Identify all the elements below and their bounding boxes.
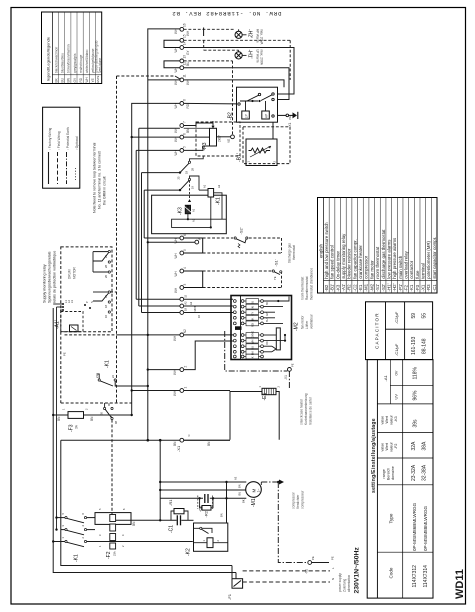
overload relay F2 (95, 508, 131, 559)
contact stage timer upper (177, 156, 204, 180)
svg-text:GY: GY (186, 50, 190, 55)
svg-text:-R2: -R2 (204, 510, 209, 517)
svg-text:MOT: MOT (193, 305, 197, 311)
svg-text:YE: YE (91, 78, 95, 82)
svg-text:-S1': -S1' (375, 284, 380, 292)
dashed wire A1 bottom loop to bus (61, 332, 132, 403)
trunk wire terminal 8 (132, 103, 180, 415)
F2 band (377, 457, 433, 459)
crankcase heater E1 element (258, 386, 281, 401)
legend colour-code table (42, 12, 103, 84)
dashed wire A1 contact 15 (110, 291, 116, 293)
wire F2 to start capacitor C1 (116, 519, 194, 526)
svg-text:-K2: -K2 (186, 548, 192, 556)
svg-text:contactor: contactor (409, 260, 414, 279)
svg-text:BN: BN (238, 484, 242, 488)
svg-text:domaine: domaine (391, 466, 395, 480)
motor wire junction dots (159, 481, 228, 500)
svg-text:-K1: -K1 (105, 360, 111, 368)
svg-text:YE: YE (273, 276, 277, 280)
K3 band (377, 431, 433, 433)
svg-text:-X1: -X1 (284, 375, 288, 380)
svg-text:16: 16 (183, 23, 187, 27)
svg-text:No. 11 and terminal no. 3 to c: No. 11 and terminal no. 3 to connect (98, 151, 102, 209)
K2 contact and coil (194, 527, 228, 547)
svg-text:WH: WH (174, 270, 178, 276)
dashed field wiring boundary left (117, 76, 176, 403)
main trunk wire from power to terminal 16 (148, 29, 180, 440)
svg-text:WH: WH (174, 287, 178, 293)
svg-text:PE: PE (311, 556, 315, 560)
svg-text:-C1: -C1 (432, 284, 437, 292)
svg-text:8: 8 (183, 99, 187, 101)
svg-text:59: 59 (411, 313, 417, 319)
svg-text:terminal: terminal (421, 263, 426, 279)
svg-text:the GRM in circuit: the GRM in circuit (103, 176, 107, 205)
svg-text:-F2: -F2 (404, 284, 409, 291)
svg-text:2: 2 (184, 366, 188, 368)
wire labels to M2 (189, 301, 201, 318)
svg-text:BN: BN (57, 416, 61, 421)
M2 right pins (261, 300, 264, 358)
svg-text:16: 16 (104, 315, 108, 318)
svg-text:-H1': -H1' (386, 283, 391, 291)
svg-text:2: 2 (216, 540, 220, 542)
pressure switch B2 box (228, 87, 278, 122)
svg-text:114X7314: 114X7314 (423, 565, 429, 588)
supply fuse F1 (227, 566, 243, 601)
svg-text:38A: 38A (422, 441, 428, 451)
svg-text:white/weiß/blanc: white/weiß/blanc (85, 49, 89, 73)
svg-text:overload relay: overload relay (404, 250, 409, 278)
svg-text:-M1: -M1 (251, 498, 257, 507)
svg-text:fan motor: fan motor (301, 315, 305, 329)
svg-text:-A1: -A1 (383, 375, 388, 382)
svg-text:BK: BK (266, 301, 269, 305)
contactor coil K1 (199, 184, 222, 219)
svg-text:3: 3 (98, 534, 102, 536)
svg-text:WH: WH (173, 390, 177, 396)
svg-text:GY: GY (266, 312, 269, 316)
wire terminal 8 to B2 (184, 102, 237, 105)
svg-text:1: 1 (184, 387, 188, 389)
svg-text:118%: 118% (413, 367, 419, 380)
svg-text:-M1: -M1 (364, 283, 369, 291)
A1 L1 L2 L3 input terminals (62, 300, 94, 311)
svg-text:15: 15 (184, 294, 188, 297)
svg-text:range: range (382, 469, 386, 478)
junction dots on buses (131, 136, 182, 191)
indicator lamp H2 (235, 29, 264, 45)
svg-text:23A: 23A (113, 551, 117, 556)
svg-text:BN: BN (90, 416, 94, 421)
svg-text:english: english (319, 244, 324, 258)
svg-text:16: 16 (197, 315, 201, 318)
svg-text:-R1: -R1 (168, 499, 173, 506)
svg-text:95: 95 (100, 412, 104, 415)
svg-text:-K1: -K1 (74, 554, 80, 562)
bleed resistor R1 (168, 499, 188, 521)
svg-text:32-38A: 32-38A (422, 464, 428, 481)
svg-text:4: 4 (183, 267, 187, 269)
field supply dashed lines L N (243, 571, 330, 582)
svg-text:max. 20VA: max. 20VA (260, 29, 264, 45)
svg-text:YE: YE (227, 139, 231, 143)
svg-text:2: 2 (85, 408, 89, 410)
svg-text:Supply monitoring relay: Supply monitoring relay (43, 264, 47, 303)
svg-text:discharge gas thermostat: discharge gas thermostat (381, 229, 386, 279)
long wire terminal 11 (148, 79, 180, 81)
svg-text:230V1N~/50Hz: 230V1N~/50Hz (354, 547, 361, 594)
svg-text:alimentation: alimentation (347, 575, 351, 592)
svg-text:5: 5 (183, 249, 187, 251)
svg-text:7: 7 (183, 121, 187, 123)
svg-text:-A1': -A1' (341, 284, 346, 292)
svg-text:WH: WH (173, 335, 177, 341)
svg-text:96%: 96% (413, 390, 419, 401)
supply monitoring relay text (43, 251, 57, 303)
svg-text:fan motor: fan motor (369, 260, 374, 279)
svg-text:room thermostat: room thermostat (301, 277, 305, 300)
svg-text:0ischarge gas: 0ischarge gas (288, 243, 292, 263)
svg-text:-A1': -A1' (55, 320, 61, 329)
discharge gas thermostat label (288, 243, 297, 263)
svg-text:-X1: -X1 (421, 284, 426, 291)
svg-text:BN: BN (132, 521, 136, 526)
svg-text:room thermostat: room thermostat (375, 246, 380, 279)
wires A1 inputs to left bus (53, 304, 62, 530)
svg-text:-C1/µF: -C1/µF (394, 343, 399, 356)
power supply label block (338, 547, 361, 594)
legend line-style table (43, 107, 80, 188)
B2 junction dots (251, 100, 260, 102)
motor wire labels (220, 476, 246, 517)
svg-text:MOTOR: MOTOR (73, 266, 77, 279)
contactor K1 main contacts (61, 513, 87, 563)
svg-text:BN: BN (67, 77, 71, 82)
jumper loop terminals 4-3 (184, 271, 203, 288)
svg-text:39s: 39s (413, 419, 419, 428)
svg-text:P: P (85, 301, 89, 303)
A1 band (377, 403, 433, 405)
svg-text:6: 6 (81, 513, 85, 515)
capacitor value table (366, 302, 433, 360)
svg-text:black/schwarz/noir: black/schwarz/noir (55, 46, 59, 73)
svg-text:-K3: -K3 (335, 284, 340, 291)
svg-text:Zuleitung: Zuleitung (343, 579, 347, 592)
svg-text:PE: PE (63, 352, 67, 356)
terminal 1 wire to crankcase heater (131, 387, 231, 397)
wire B2 to B1 control box (272, 122, 274, 139)
svg-text:28: 28 (191, 168, 195, 171)
svg-text:1: 1 (62, 408, 66, 410)
M2 fan motor label (301, 313, 314, 329)
potentiometer R3 (202, 121, 222, 151)
svg-text:25: 25 (104, 255, 108, 258)
M2 internal wires and winding (264, 297, 289, 352)
svg-text:114X7312: 114X7312 (412, 565, 418, 588)
svg-text:-P1': -P1' (398, 284, 403, 292)
relay coil box K1 K3 (152, 195, 227, 234)
wire colour labels upper terminals (174, 28, 190, 156)
svg-text:-F1: -F1 (227, 593, 232, 600)
svg-text:1~: 1~ (257, 489, 261, 493)
start capacitor C1 (169, 515, 181, 533)
svg-text:potentiometer (MR): potentiometer (MR) (426, 240, 431, 278)
svg-text:N2: N2 (183, 329, 187, 333)
main horizontal wire N (61, 435, 230, 453)
svg-text:14: 14 (183, 41, 187, 45)
svg-text:HP Alarm: HP Alarm (256, 29, 260, 43)
svg-text:-R3: -R3 (426, 284, 431, 292)
svg-text:-F3: -F3 (415, 284, 420, 291)
svg-text:high and low pressure switch: high and low pressure switch (324, 222, 329, 279)
fuse F3 (52, 408, 133, 432)
svg-text:fuse: fuse (415, 270, 420, 279)
svg-text:BN: BN (251, 352, 255, 356)
range band (377, 484, 433, 486)
svg-text:-K3: -K3 (394, 416, 398, 422)
svg-text:22: 22 (111, 375, 115, 378)
svg-text:blue/blau/bleu: blue/blau/bleu (61, 53, 65, 73)
svg-text:valeur: valeur (390, 441, 394, 452)
svg-text:-K3: -K3 (178, 207, 184, 215)
svg-text:DRW. NO. -11BR8482 REV. B2: DRW. NO. -11BR8482 REV. B2 (172, 10, 282, 17)
svg-text:4: 4 (81, 525, 85, 527)
svg-text:-K1: -K1 (216, 197, 222, 205)
svg-text:PE: PE (331, 556, 335, 560)
B2 internal contacts (238, 93, 274, 111)
svg-text:26: 26 (104, 275, 108, 278)
svg-text:BK: BK (55, 77, 59, 82)
svg-text:BU: BU (266, 318, 269, 322)
svg-text:BU: BU (61, 77, 65, 82)
svg-text:: Factory Wiring: : Factory Wiring (48, 127, 52, 150)
svg-text:A2: A2 (217, 184, 221, 188)
svg-text:32A: 32A (411, 441, 417, 451)
room thermostat contact S1 (272, 259, 282, 280)
svg-text:Kurbelwannenheizung: Kurbelwannenheizung (304, 393, 308, 425)
B2 HP sensor element (262, 111, 270, 119)
svg-text:Löfter: Löfter (305, 320, 309, 329)
svg-text:ventilateur: ventilateur (310, 313, 314, 329)
svg-text:2: 2 (273, 161, 277, 163)
timer coil K3 (178, 205, 196, 222)
svg-text:fan speed control: fan speed control (330, 245, 335, 279)
svg-text:WH: WH (85, 76, 89, 82)
svg-text:-M2: -M2 (369, 283, 374, 291)
svg-text:Verdichter: Verdichter (296, 494, 300, 509)
svg-text:LP: LP (245, 114, 249, 118)
svg-text:résistance de carter: résistance de carter (309, 396, 313, 425)
svg-text:A2: A2 (184, 301, 188, 305)
svg-text:-F2: -F2 (394, 444, 398, 449)
svg-text:main switch: main switch (398, 255, 403, 278)
svg-text:2: 2 (121, 545, 125, 547)
contact at terminal 11 (175, 76, 181, 79)
A1 output contact 95-96-98 (100, 403, 119, 424)
jumper loop terminals 13-12 (164, 61, 180, 68)
earth terminal X1:PE arrow top (272, 112, 298, 128)
svg-text:5: 5 (98, 508, 102, 510)
component designation list table (318, 198, 438, 294)
svg-text:compressor: compressor (292, 491, 296, 509)
M2 junction dots (277, 300, 286, 342)
svg-text:N: N (187, 435, 191, 437)
svg-text:GY: GY (251, 312, 255, 316)
fan capacitor C2 (198, 494, 213, 512)
svg-text:6: 6 (183, 234, 187, 236)
svg-text:cranckcase heater: cranckcase heater (300, 398, 304, 425)
crankcase heater E1 loop (230, 392, 279, 440)
svg-text:2: 2 (81, 537, 85, 539)
svg-text:Note:Need to remove loop betwe: Note:Need to remove loop between termina… (93, 142, 97, 213)
coil box junction dots (187, 218, 212, 228)
potentiometer R3 dashed enclosure (196, 122, 240, 156)
compressor motor M1 (246, 482, 262, 507)
jumper loop terminals 15-14 (164, 40, 180, 47)
svg-text:legend/Legende/légende: legend/Legende/légende (46, 36, 51, 81)
svg-text:bleeder resistor: bleeder resistor (347, 248, 352, 279)
svg-text:thermostat d'ambiance: thermostat d'ambiance (310, 268, 314, 300)
terminal strip X1 upper circles (180, 27, 184, 152)
svg-text:PE: PE (288, 116, 292, 120)
supply line labels (331, 567, 335, 580)
svg-text:UV: UV (393, 394, 398, 400)
title WD11 (454, 569, 466, 599)
svg-text:value: value (381, 443, 385, 452)
svg-text:-E1: -E1 (262, 393, 268, 401)
svg-text:Type: Type (389, 513, 394, 523)
svg-text:-C1: -C1 (169, 525, 175, 533)
indicator lamp H1 (235, 50, 264, 66)
fan speed control B1 dashed box (227, 127, 290, 164)
wire terminal 12 to B2 contact 3 (184, 68, 289, 100)
svg-text:DRUM: DRUM (68, 269, 72, 279)
svg-text:88-148: 88-148 (422, 338, 428, 354)
svg-text:fan capacitor compr.: fan capacitor compr. (352, 239, 357, 279)
drawing number label (172, 10, 282, 17)
terminal strip X1 middle circles (180, 236, 184, 337)
dashed field wire terminal 16 to lamp H2 (184, 28, 239, 37)
svg-text:relais de protection voltmétri: relais de protection voltmétrique (53, 251, 57, 303)
room thermostat label (301, 268, 314, 300)
motor M1 supply wires (160, 440, 246, 523)
B1 inner control box with sensor resistor (246, 139, 277, 166)
svg-text:-X1: -X1 (288, 122, 292, 127)
svg-text:A2: A2 (189, 301, 193, 305)
svg-text:/vert-jaune: /vert-jaune (98, 58, 102, 73)
svg-text:A3: A3 (234, 476, 238, 480)
svg-text:18: 18 (185, 171, 189, 174)
svg-text:RD: RD (251, 323, 255, 327)
bleed resistor R2 (200, 498, 213, 517)
svg-text:Code: Code (389, 567, 394, 578)
svg-text:WH: WH (186, 30, 190, 36)
contact stage to K1 coil (180, 171, 199, 202)
svg-text:L: L (331, 567, 335, 569)
svg-text:WH: WH (251, 340, 255, 345)
svg-text:GY: GY (73, 77, 77, 82)
svg-text:23-32A: 23-32A (411, 464, 417, 481)
room thermostat S1 dashed field loop (203, 271, 282, 288)
svg-text:brown/braun/marron: brown/braun/marron (67, 44, 71, 73)
svg-text:L3: L3 (70, 300, 74, 303)
K1 auxiliary contact 21-22 (95, 360, 149, 387)
svg-text:WH: WH (173, 369, 177, 375)
A1 changeover contact upper 25-26-28 (93, 251, 110, 279)
svg-text:Raumthermostat: Raumthermostat (305, 276, 309, 300)
svg-text:BN: BN (220, 513, 224, 517)
svg-text:valeur: valeur (390, 414, 394, 425)
svg-text:supply monitoring relay: supply monitoring relay (341, 233, 346, 279)
svg-text:55: 55 (422, 313, 428, 319)
svg-text:1: 1 (258, 386, 262, 388)
svg-text:LP Alarm: LP Alarm (256, 50, 260, 63)
wires buses to M2 terminals (136, 299, 233, 312)
A1 coil with earth box (61, 312, 83, 332)
svg-text:-K1: -K1 (409, 284, 414, 291)
power section outer box (53, 308, 236, 573)
potential earth dash-dot M1 to PE terminal (261, 480, 334, 575)
svg-text:power supply: power supply (338, 573, 342, 592)
jumper loop terminals 6-5 (184, 238, 203, 253)
svg-text:-H2': -H2' (392, 283, 397, 291)
svg-text:18: 18 (104, 305, 108, 308)
earth terminal X1 PE mid (284, 363, 295, 380)
svg-text:-X1: -X1 (305, 569, 309, 574)
svg-text:start capacitor compr.: start capacitor compr. (432, 237, 437, 279)
wire terminal 11 to B2 (184, 80, 284, 87)
svg-text:WH: WH (174, 237, 178, 243)
svg-text:BN: BN (173, 441, 177, 446)
B2 LP sensor element (242, 111, 250, 119)
svg-text:1: 1 (98, 545, 102, 547)
svg-text:5: 5 (183, 146, 187, 148)
svg-text:WH: WH (174, 252, 178, 258)
svg-text:2k87: 2k87 (218, 135, 222, 142)
K1 pole feed wires (52, 516, 193, 542)
discharge gas thermostat S2 dashed field loop (203, 238, 282, 253)
svg-text:thermostat: thermostat (292, 245, 296, 260)
terminal numbers upper (183, 23, 187, 148)
svg-text:25: 25 (177, 176, 181, 179)
svg-text:-S2': -S2' (381, 284, 386, 292)
svg-text:GNYE: GNYE (251, 331, 255, 339)
M2 small pin labels (266, 301, 269, 345)
svg-text:2: 2 (277, 386, 281, 388)
relay K2 box (186, 523, 228, 556)
svg-text:-H2': -H2' (247, 29, 253, 38)
svg-text:-B2: -B2 (228, 112, 234, 120)
wires terminals 7,6,5 to R3 and B1 (184, 123, 231, 150)
supply monitoring relay A1 dashed box (55, 247, 113, 332)
svg-text:: Optional: : Optional (75, 136, 79, 150)
svg-text:crankcase heater: crankcase heater (358, 245, 363, 279)
svg-text:5: 5 (61, 513, 65, 515)
setting value table (367, 360, 433, 598)
discharge gas thermostat contact S2 (234, 227, 248, 248)
svg-text:1: 1 (61, 537, 65, 539)
svg-text:-E1: -E1 (358, 284, 363, 291)
svg-text:-B2: -B2 (324, 284, 329, 291)
svg-text:: Potential Earth: : Potential Earth (66, 127, 70, 150)
wire terminal 14 to B2 contact 4 (184, 48, 294, 95)
svg-text:low pressure alarms: low pressure alarms (386, 239, 391, 279)
svg-text:compressor: compressor (364, 255, 369, 278)
terminal numbers middle (173, 234, 188, 341)
svg-text:-F2: -F2 (106, 551, 112, 559)
